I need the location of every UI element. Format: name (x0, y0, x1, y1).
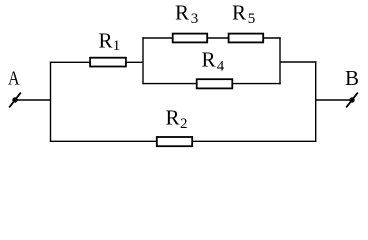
svg-text:1: 1 (113, 38, 121, 54)
wire parallel block left vertical (142, 37, 144, 84)
resistor R1 (90, 58, 126, 67)
label R2 (166, 106, 188, 133)
wire A lead (15, 99, 51, 101)
resistor R3 (173, 34, 208, 43)
svg-text:R: R (232, 0, 246, 24)
wire top sub-branch left segment (142, 37, 173, 39)
wire top sub-branch right segment (263, 37, 281, 39)
resistor R5 (229, 34, 264, 43)
wire bottom sub-branch right segment (232, 83, 280, 85)
resistor R4 (197, 79, 233, 88)
label R1 (99, 29, 121, 55)
wire bottom sub-branch left segment (142, 83, 197, 85)
svg-text:3: 3 (191, 11, 199, 27)
label R3 (175, 0, 198, 27)
svg-text:R: R (99, 29, 113, 53)
svg-text:5: 5 (248, 11, 256, 27)
svg-text:4: 4 (217, 59, 225, 75)
terminal A (9, 93, 21, 108)
svg-text:R: R (166, 106, 180, 130)
wire parallel block to right bus (280, 61, 316, 63)
wire between R3 and R5 (207, 37, 228, 39)
wire right bus (315, 61, 317, 142)
wire bottom branch left segment (50, 140, 157, 142)
wire left bus (50, 62, 52, 142)
terminal B (346, 93, 358, 108)
wire bottom branch right segment (192, 140, 316, 142)
svg-text:R: R (202, 48, 216, 72)
label R5 (232, 0, 255, 27)
svg-text:R: R (175, 0, 189, 24)
wire top branch left (50, 61, 91, 63)
resistor R2 (157, 137, 192, 146)
label R4 (202, 48, 225, 75)
svg-text:B: B (345, 66, 359, 90)
wire R1 to parallel block (126, 61, 144, 63)
svg-text:2: 2 (180, 116, 188, 132)
wire parallel block right vertical (279, 37, 281, 84)
svg-text:A: A (8, 68, 20, 90)
wire B lead (316, 99, 352, 101)
